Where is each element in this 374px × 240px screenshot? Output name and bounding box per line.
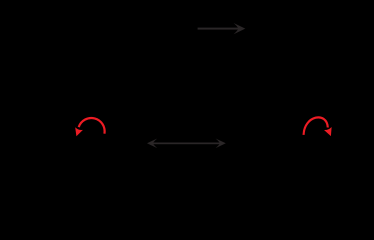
bottom double-headed arrow (147, 139, 226, 149)
top reaction arrow (rightward) (198, 23, 246, 34)
right red rotation arrow (clockwise arc) (304, 117, 335, 137)
left red rotation arrow (counterclockwise arc) (73, 118, 105, 138)
